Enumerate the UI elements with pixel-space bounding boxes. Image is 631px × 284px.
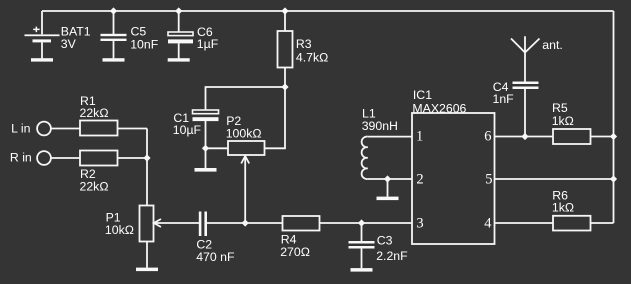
battery BAT1 plate short thick xyxy=(33,39,52,42)
svg-text:100kΩ: 100kΩ xyxy=(226,126,262,140)
svg-text:C5: C5 xyxy=(131,24,147,38)
resistor R4 body xyxy=(283,216,320,231)
wire antenna stem xyxy=(524,53,526,82)
svg-text:22kΩ: 22kΩ xyxy=(80,106,109,120)
svg-text:10nF: 10nF xyxy=(130,37,159,51)
wire C5 stem top xyxy=(113,11,115,34)
wire R3 node down to P2 right xyxy=(265,87,286,148)
svg-text:6: 6 xyxy=(484,129,491,145)
wire C6 stem bottom xyxy=(178,43,180,58)
svg-text:5: 5 xyxy=(485,172,492,188)
battery BAT1 plate long xyxy=(25,34,60,36)
svg-text:22kΩ: 22kΩ xyxy=(80,179,109,193)
wire R4 to pin 3 xyxy=(320,222,413,224)
wire C4 to pin 6 node xyxy=(524,89,526,137)
wire node R3 to C1 xyxy=(206,87,286,110)
potentiometer P1 body xyxy=(140,206,154,242)
junction node top rail C5 xyxy=(110,7,117,14)
junction node top rail R3 xyxy=(281,7,288,14)
svg-text:R in: R in xyxy=(10,151,32,165)
wire L1 bottom to pin 2 xyxy=(368,178,412,180)
ground P1 xyxy=(136,268,158,272)
svg-text:R3: R3 xyxy=(296,37,312,51)
wire R in to R2 xyxy=(52,157,81,159)
junction node R5 right rail xyxy=(610,133,617,140)
wire pin 5 to right rail xyxy=(495,178,614,180)
wire R1 to node xyxy=(118,128,148,130)
wire L in to R1 xyxy=(52,128,81,130)
terminal R in circle xyxy=(37,151,51,165)
capacitor C3 plate bottom xyxy=(349,246,375,249)
junction node R2 mix xyxy=(143,154,150,161)
svg-text:270Ω: 270Ω xyxy=(280,245,310,259)
wire pin 6 to R5 xyxy=(495,136,554,138)
svg-text:1: 1 xyxy=(416,129,423,145)
capacitor C4 plate top xyxy=(513,82,539,85)
svg-text:470 nF: 470 nF xyxy=(196,250,235,264)
svg-text:390nH: 390nH xyxy=(362,119,398,133)
wire P2 wiper down xyxy=(244,158,246,223)
svg-text:1nF: 1nF xyxy=(493,92,515,106)
inductor L1 coil xyxy=(362,137,368,179)
wire pin 4 to R6 xyxy=(495,222,554,224)
wire P1 bottom to ground xyxy=(146,242,148,268)
junction node P2 wiper xyxy=(242,219,249,226)
resistor R3 body xyxy=(278,31,293,68)
junction node top rail C6 xyxy=(175,7,182,14)
svg-text:IC1: IC1 xyxy=(413,88,432,102)
svg-text:3: 3 xyxy=(416,216,423,232)
svg-text:2.2nF: 2.2nF xyxy=(376,249,408,263)
wire L1 ground stem xyxy=(387,179,389,197)
ground C5 xyxy=(103,58,125,61)
capacitor C5 plate top xyxy=(101,34,127,36)
svg-text:C3: C3 xyxy=(377,233,393,247)
resistor R6 body xyxy=(553,216,591,231)
svg-text:1kΩ: 1kΩ xyxy=(552,114,574,128)
wire R3 stem bottom xyxy=(284,68,286,88)
junction node C1 bottom xyxy=(202,145,209,152)
wire R2 to node xyxy=(118,157,148,159)
svg-text:10kΩ: 10kΩ xyxy=(105,223,134,237)
wire C2 to R4 xyxy=(207,222,283,224)
wire mix node down to P1 xyxy=(146,129,148,206)
wire C1 bottom stem xyxy=(205,121,207,148)
capacitor C4 plate bottom xyxy=(513,87,539,90)
ground C6 xyxy=(168,58,190,61)
svg-text:3V: 3V xyxy=(61,37,77,51)
wire battery stem bottom xyxy=(41,42,43,58)
antenna ANT1 xyxy=(511,36,540,52)
svg-text:2: 2 xyxy=(416,172,423,188)
svg-text:10µF: 10µF xyxy=(173,123,202,137)
junction node C4 pin6 xyxy=(521,133,528,140)
wire P1 wiper to C2 xyxy=(154,222,200,224)
wire C1 node to P2 left xyxy=(206,147,229,149)
capacitor C2 plate left xyxy=(199,212,202,237)
svg-text:ant.: ant. xyxy=(542,38,563,52)
capacitor C1 plate bottom solid xyxy=(193,117,219,121)
svg-text:1µF: 1µF xyxy=(197,37,219,51)
ground L1 xyxy=(377,197,399,201)
capacitor C3 plate top xyxy=(349,241,375,244)
resistor R1 body xyxy=(80,121,118,136)
resistor R2 body xyxy=(80,151,118,166)
wire R5 to right rail xyxy=(591,136,614,138)
ground C3 xyxy=(351,268,373,272)
svg-text:4.7kΩ: 4.7kΩ xyxy=(296,50,328,64)
ground C1 xyxy=(195,168,217,172)
wire C1 node to ground xyxy=(205,148,207,168)
potentiometer P2 wiper arrow xyxy=(241,156,249,164)
wire R3 stem top xyxy=(284,11,286,31)
junction node R3 bottom xyxy=(281,83,288,90)
wire C3 stem top xyxy=(361,223,363,241)
wire right rail xyxy=(613,11,615,223)
svg-text:L in: L in xyxy=(11,121,31,135)
battery BAT1 plus sign xyxy=(33,27,39,32)
wire battery stem top xyxy=(41,11,43,34)
capacitor C1 plate top (polarized outline) xyxy=(193,110,219,114)
potentiometer P2 body xyxy=(228,141,265,155)
capacitor C6 plate top (polarized outline) xyxy=(168,32,193,36)
capacitor C2 plate right xyxy=(204,212,207,237)
wire C6 stem top xyxy=(178,11,180,32)
junction node L1 ground xyxy=(384,175,391,182)
svg-text:4: 4 xyxy=(484,216,492,232)
capacitor C5 plate bottom xyxy=(101,39,127,41)
ground battery xyxy=(31,58,53,61)
resistor R5 body xyxy=(553,129,591,144)
junction node C3 xyxy=(358,219,365,226)
wire R6 to right rail xyxy=(591,222,614,224)
potentiometer P1 wiper arrow xyxy=(154,219,161,227)
terminal L in circle xyxy=(37,122,51,136)
svg-text:1kΩ: 1kΩ xyxy=(552,201,574,215)
wire C3 stem bottom xyxy=(361,249,363,269)
svg-text:MAX2606: MAX2606 xyxy=(412,101,466,115)
wire L1 top to pin 1 xyxy=(368,136,412,138)
capacitor C6 plate bottom solid xyxy=(168,39,193,43)
wire top rail xyxy=(42,10,614,12)
wire C5 stem bottom xyxy=(113,41,115,58)
junction node pin5 right rail xyxy=(610,175,617,182)
op-amp IC1 MAX2606 body xyxy=(412,113,495,244)
